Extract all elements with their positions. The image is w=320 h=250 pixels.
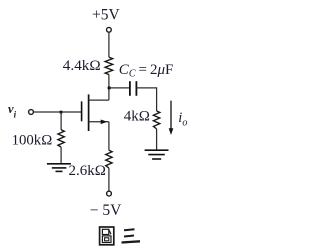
wire from R_S bottom to -5V terminal xyxy=(108,168,110,191)
caption glyph TU (figure) xyxy=(100,227,114,245)
resistor R_G 100kOhm xyxy=(58,130,64,147)
svg-text:100kΩ: 100kΩ xyxy=(12,133,53,149)
svg-text:2.6kΩ: 2.6kΩ xyxy=(69,163,106,179)
svg-text:− 5V: − 5V xyxy=(90,202,122,219)
wire from R_D bottom to drain node (through junction) xyxy=(108,75,110,101)
wire from R_L bottom to ground xyxy=(156,129,158,150)
resistor R_L 4kOhm xyxy=(153,111,159,129)
resistor R_S 2.6kOhm xyxy=(106,150,112,168)
wire from tee down to R_G top xyxy=(60,112,62,130)
resistor R_D 4.4kOhm xyxy=(105,57,113,74)
node junction dot (drain node) xyxy=(108,86,111,89)
wire from R_G bottom to ground xyxy=(60,147,62,164)
svg-text:4.4kΩ: 4.4kΩ xyxy=(63,57,101,74)
transistor Q1 channel bar xyxy=(88,94,90,131)
wire from drain node to capacitor C_C left plate xyxy=(109,87,129,89)
wire from source corner down to R_S top xyxy=(108,122,110,151)
ground (left, below R_G) xyxy=(47,164,71,172)
transistor Q1 gate bar xyxy=(81,101,83,121)
svg-text:CC = 2μF: CC = 2μF xyxy=(119,62,174,80)
-5V supply terminal xyxy=(107,191,112,196)
svg-text:+5V: +5V xyxy=(92,6,120,23)
i_o current arrow xyxy=(169,101,174,135)
node junction (gate / 100k tee) xyxy=(60,111,63,114)
wire from +5V terminal to resistor R_D top xyxy=(108,32,110,57)
svg-text:4kΩ: 4kΩ xyxy=(124,108,150,124)
transistor Q1 drain lead xyxy=(89,99,109,101)
wire from input terminal to gate xyxy=(34,111,82,113)
transistor Q1 source lead with arrow xyxy=(89,120,109,125)
input terminal v_i xyxy=(29,110,34,115)
capacitor C_C plates xyxy=(130,81,137,96)
svg-text:io: io xyxy=(178,110,187,129)
caption glyph SAN (three) xyxy=(122,229,141,242)
wire from C_C right plate to output branch corner xyxy=(136,88,156,111)
ground (right, below R_L) xyxy=(145,150,169,159)
svg-text:vi: vi xyxy=(8,102,17,120)
+5V supply terminal xyxy=(107,27,112,32)
